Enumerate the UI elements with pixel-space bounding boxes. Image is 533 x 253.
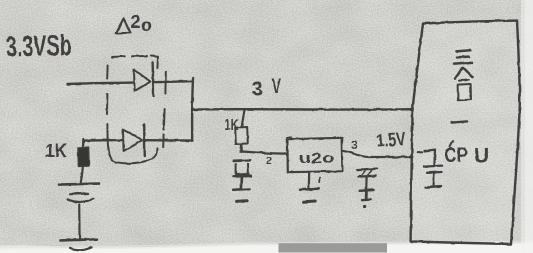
bottom cell plate (long) bbox=[61, 239, 98, 240]
label 三 (three) bbox=[456, 50, 471, 51]
capacitor C3 (inside CPU box) hook wire bbox=[418, 151, 422, 153]
bottom cell plate (curved) bbox=[70, 247, 92, 250]
svg-text:1.5V: 1.5V bbox=[376, 129, 407, 152]
resistor R1 (1K) body bbox=[235, 127, 248, 144]
tick mark right of ground bbox=[318, 178, 320, 183]
capacitor C3 stem bbox=[433, 174, 436, 186]
wire: lower diode cathode to bus bbox=[145, 139, 192, 142]
wire: top diode cathode to right bus bbox=[154, 81, 193, 82]
resistor R2 bottom lead bbox=[81, 167, 83, 184]
svg-text:U: U bbox=[474, 145, 489, 168]
svg-text:V: V bbox=[272, 75, 282, 98]
wire: lower diode anode from 1K corner bbox=[83, 139, 122, 142]
wire: 3.3VSb input to top diode anode bbox=[68, 83, 134, 84]
battery BT1 plate 2 (short) bbox=[70, 192, 88, 195]
resistor R2 (1K left, filled body) bbox=[78, 148, 89, 167]
lighter page edge on right bbox=[521, 0, 533, 253]
diode D20b (bottom) bbox=[123, 125, 145, 157]
capacitor C2 lead bbox=[365, 178, 368, 191]
ground (under C2) bbox=[360, 189, 374, 192]
wire: battery to bottom cell bbox=[78, 205, 81, 239]
capacitor C1 body (open box) bbox=[236, 164, 249, 175]
svg-text:3: 3 bbox=[252, 78, 264, 101]
svg-text:3: 3 bbox=[351, 138, 358, 152]
svg-text:0: 0 bbox=[141, 18, 152, 35]
label 合 (combine) bbox=[455, 68, 463, 79]
svg-text:1K: 1K bbox=[45, 141, 67, 162]
wire: corner down to resistor R2 bbox=[82, 140, 85, 148]
label 一 (one) bbox=[452, 121, 467, 122]
capacitor C2 bottom plate bbox=[359, 175, 376, 178]
capacitor C1 bottom lead bbox=[240, 178, 243, 190]
grey shadow bar at bottom bbox=[279, 243, 388, 252]
wire: R1 junction to U20 pin 2 bbox=[241, 152, 287, 154]
label D20 (delta-shaped D glyph) bbox=[116, 19, 131, 34]
CPU box (three-in-one IC) bbox=[411, 21, 520, 244]
capacitor C2 (1.5V rail) top plate with hatch bbox=[357, 169, 377, 170]
ground (under U20) stem bbox=[308, 173, 311, 189]
svg-text:2: 2 bbox=[131, 12, 141, 32]
apostrophe over C of CPU bbox=[450, 141, 453, 147]
ground (under C1) bbox=[233, 188, 249, 191]
junction node (3V rail / CPU box edge) bbox=[410, 108, 413, 111]
svg-text:3.3VSb: 3.3VSb bbox=[5, 30, 72, 64]
junction node (bus / 3V rail) bbox=[191, 108, 194, 111]
U20 box bbox=[287, 138, 342, 172]
dashed package outline D20 bbox=[107, 56, 166, 163]
wire: U20 pin 3 to CPU box (1.5V) bbox=[342, 151, 412, 157]
cpu box interior lighten bbox=[412, 22, 519, 243]
capacitor C1 (under 1K) top plate bbox=[233, 159, 250, 162]
svg-text:2: 2 bbox=[266, 155, 272, 167]
wire: right vertical bus bbox=[191, 78, 194, 141]
resistor R1 (1K) bottom lead / junction node bbox=[240, 145, 242, 153]
resistor R1 (1K) top lead bbox=[242, 110, 245, 126]
capacitor C3 plates bbox=[424, 166, 442, 167]
svg-text:1K: 1K bbox=[225, 117, 240, 134]
diode D20a (top) bbox=[134, 63, 154, 97]
ground bar (under C3) bbox=[426, 187, 441, 188]
white bottom strip bbox=[0, 243, 533, 253]
battery BT1 plate 1 (long) bbox=[59, 184, 99, 185]
battery BT1 plate 3 (curved) bbox=[68, 199, 94, 202]
wire: 3V rail bbox=[192, 108, 411, 111]
svg-text:CP: CP bbox=[445, 144, 468, 167]
svg-text:u2o: u2o bbox=[299, 150, 335, 167]
